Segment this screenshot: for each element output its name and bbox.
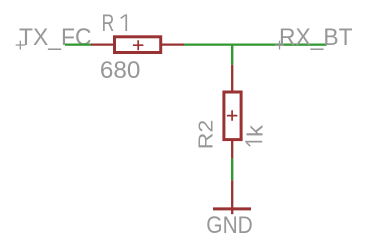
label R1 <box>102 10 128 37</box>
wire <box>231 159 233 181</box>
svg-text:RX_BT: RX_BT <box>279 24 353 51</box>
wire <box>184 44 327 46</box>
wire <box>65 44 92 46</box>
ground GND <box>213 180 251 214</box>
resistor R2 <box>224 65 241 159</box>
svg-text:GND: GND <box>206 212 253 239</box>
value 1k <box>242 125 267 147</box>
svg-text:R2: R2 <box>194 120 217 150</box>
svg-text:680: 680 <box>100 57 140 84</box>
svg-text:k: k <box>242 125 267 137</box>
label origin cross RX_BT <box>275 41 284 50</box>
resistor R1 <box>91 37 184 53</box>
svg-text:TX_FC: TX_FC <box>19 24 92 51</box>
label origin cross TX_FC <box>16 41 25 50</box>
wire <box>231 45 233 65</box>
svg-text:R: R <box>102 10 115 37</box>
